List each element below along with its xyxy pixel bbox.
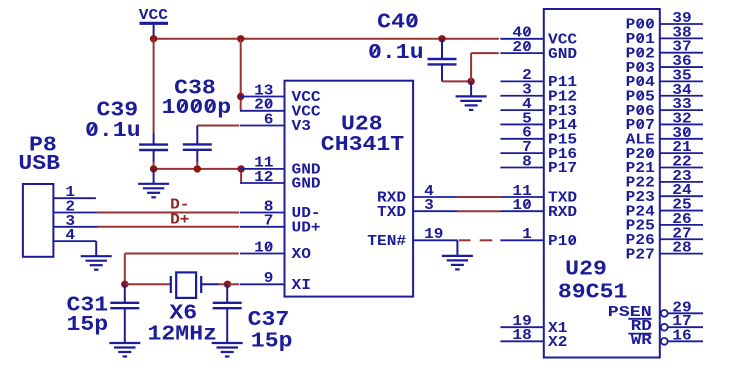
crystal X6: [171, 272, 219, 298]
U29 pin 7 (P16): [500, 139, 577, 163]
svg-text:10: 10: [512, 197, 531, 214]
overline bar above RD: [628, 318, 651, 320]
svg-text:U29: U29: [565, 259, 607, 282]
svg-text:12MHz: 12MHz: [148, 323, 218, 346]
P8 pin 1: [53, 184, 96, 201]
U28 pin 19 (TEN#): [367, 226, 457, 250]
wire U28 XO to crystal column: [125, 254, 239, 285]
svg-text:GND: GND: [292, 176, 321, 193]
label U28: [341, 114, 383, 137]
U28 pin 11 (GND): [240, 155, 321, 179]
svg-text:X6: X6: [169, 303, 197, 326]
P8 pin 2: [53, 199, 97, 216]
wire D- (P8 pin2 to U28 UD-): [97, 212, 239, 214]
wire VCC rail (153.5,38.8)-(499,38.8): [154, 38, 499, 40]
U28 pin 12 (GND): [240, 169, 321, 193]
svg-text:0.1u: 0.1u: [85, 120, 141, 143]
U29 pin 17 (RD): [631, 313, 703, 335]
ic U28 body: [285, 81, 414, 297]
svg-text:P27: P27: [626, 246, 655, 263]
label C39: [97, 99, 139, 122]
U29 pin 29 (PSEN): [608, 299, 703, 321]
svg-text:TEN#: TEN#: [367, 233, 406, 250]
svg-text:RXD: RXD: [548, 204, 577, 221]
U29 pin 1 (P10): [500, 226, 577, 250]
svg-text:USB: USB: [18, 153, 60, 176]
U29 pin 21 (P20): [626, 139, 703, 163]
U29 pin 18 (X2): [500, 327, 567, 351]
U29 pin 4 (P13): [500, 96, 577, 120]
svg-text:18: 18: [512, 327, 531, 344]
label USB: [18, 153, 60, 176]
U29 pin 20 (GND): [500, 39, 577, 63]
U29 pin 11 (TXD): [500, 183, 577, 207]
U29 pin 39 (P00): [626, 10, 703, 34]
U29 pin 2 (P11): [500, 67, 577, 91]
ground symbol below C39: [138, 169, 169, 197]
U28 pin 20 (VCC): [240, 97, 321, 121]
label P8: [29, 135, 57, 158]
svg-text:UD+: UD+: [292, 220, 321, 237]
label CH341T: [321, 134, 404, 157]
ic U29 body: [544, 9, 660, 358]
U29 pin 22 (P21): [626, 154, 703, 178]
wire junction to U28 XI: [228, 283, 240, 285]
capacitor C37: [213, 284, 242, 343]
U29 pin 25 (P24): [626, 197, 703, 221]
dashed wire TEN# to U29 P10: [459, 239, 492, 241]
ground symbol below C40: [456, 81, 487, 110]
U28 pin 7 (UD+): [240, 213, 321, 237]
label X6: [169, 303, 197, 326]
wire C38 lead to gnd rail: [196, 162, 198, 169]
ground symbol below C37: [212, 343, 243, 357]
ground symbol below P8 pin 4: [81, 241, 112, 270]
svg-text:16: 16: [672, 327, 691, 344]
junction C38/gnd (197.3,168.9): [194, 165, 201, 172]
wire TEN# to ground: [456, 240, 458, 256]
junction X6/C37/XI (227.5,284.3): [224, 281, 231, 288]
svg-text:XO: XO: [292, 246, 311, 263]
U28 pin 4 (RXD): [377, 183, 458, 207]
ground symbol below C31: [109, 343, 140, 357]
U29 pin 40 (VCC): [500, 25, 577, 49]
wire RXD (U28 pin4 to U29 pin11): [458, 196, 501, 198]
P8 pin 3: [53, 213, 97, 230]
svg-text:12: 12: [254, 169, 273, 186]
wire VCC down to U28 VCC pins (240.7): [240, 39, 242, 111]
junction C40/gnd/U29pin20 (471.1,81.4): [467, 78, 474, 85]
U29 pin 8 (P17): [500, 153, 577, 177]
junction at U28 pin13 (240.7,96.5): [237, 93, 244, 100]
svg-text:0.1u: 0.1u: [368, 42, 424, 65]
U29 pin 38 (P01): [626, 24, 703, 48]
wire gnd rail (153.5,168.9)-(241,168.9): [154, 168, 242, 170]
label C37: [248, 309, 290, 332]
U29 pin 36 (P03): [626, 53, 703, 77]
net label D-: [170, 197, 189, 214]
U29 pin 30 (ALE): [626, 125, 703, 149]
junction VCC to U28 pins 13/20 (240.7,38.8): [237, 35, 244, 42]
svg-text:89C51: 89C51: [558, 281, 628, 304]
svg-text:X2: X2: [548, 334, 567, 351]
power VCC symbol: [139, 7, 168, 39]
junction C39/gnd (153.5,168.9): [150, 165, 157, 172]
U29 pin 16 (WR): [631, 327, 703, 349]
svg-text:GND: GND: [548, 46, 577, 63]
U29 pin 28 (P27): [626, 240, 703, 264]
junction VCC to C40 (442,38.8): [438, 35, 445, 42]
wire C40 bottom to gnd junction: [442, 80, 471, 82]
U28 pin 3 (TXD): [377, 197, 458, 221]
svg-text:CH341T: CH341T: [321, 134, 404, 157]
wire U28 pin6 V3 to C38 top: [197, 126, 239, 145]
svg-text:9: 9: [264, 270, 274, 287]
svg-text:V3: V3: [292, 118, 311, 135]
label C40: [377, 12, 419, 35]
svg-text:C40: C40: [377, 12, 419, 35]
U29 pin 24 (P23): [626, 182, 703, 206]
svg-text:3: 3: [424, 197, 434, 214]
U28 pin 6 (V3): [240, 111, 311, 135]
svg-text:C37: C37: [248, 309, 290, 332]
label C38: [174, 77, 216, 100]
svg-text:1: 1: [522, 226, 532, 243]
svg-text:XI: XI: [292, 277, 311, 294]
label 89C51: [558, 281, 628, 304]
capacitor C40: [428, 39, 457, 82]
U29 pin 23 (P22): [626, 168, 703, 192]
U29 pin 32 (P07): [626, 110, 703, 134]
wire C39 lead to gnd rail: [153, 162, 155, 169]
capacitor C31: [110, 284, 139, 343]
U29 pin 26 (P25): [626, 211, 703, 235]
U29 pin 19 (X1): [500, 313, 567, 337]
value 12MHz: [148, 323, 218, 346]
svg-text:1000p: 1000p: [162, 97, 232, 120]
svg-text:15p: 15p: [67, 314, 109, 337]
capacitor C39: [139, 133, 168, 162]
value 1000p (C38): [162, 97, 232, 120]
svg-text:P10: P10: [548, 233, 577, 250]
wire TXD (U28 pin3 to U29 pin10): [458, 210, 501, 212]
svg-text:20: 20: [512, 39, 531, 56]
junction gnd rail at U28 pin11 (241.1,168.9): [237, 165, 244, 172]
U29 pin 27 (P26): [626, 225, 703, 249]
U29 pin 3 (P12): [500, 82, 577, 106]
U28 pin 13 (VCC): [240, 82, 321, 106]
wire gnd junction up to U29 pin20 GND: [471, 53, 499, 81]
U28 pin 8 (UD-): [240, 198, 321, 222]
label C31: [67, 295, 109, 318]
label U29: [565, 259, 607, 282]
wire D+ (P8 pin3 to U28 UD+): [97, 226, 239, 228]
svg-text:7: 7: [264, 213, 274, 230]
wire VCC down to C39 (153.5): [153, 39, 155, 133]
overline bar above WR: [628, 333, 651, 335]
U29 pin 37 (P02): [626, 39, 703, 63]
wire crystal right lead to junction: [219, 283, 227, 285]
U29 pin 35 (P04): [626, 67, 703, 91]
value 15p (C37): [251, 330, 293, 353]
svg-text:4: 4: [65, 227, 75, 244]
U28 pin 10 (XO): [240, 239, 311, 263]
U29 pin 33 (P06): [626, 96, 703, 120]
wire crystal left lead: [125, 283, 171, 285]
svg-text:TXD: TXD: [377, 204, 406, 221]
P8 pin 4: [53, 227, 96, 244]
svg-text:C39: C39: [97, 99, 139, 122]
net label D+: [170, 212, 189, 229]
svg-text:VCC: VCC: [139, 7, 168, 24]
U29 pin 6 (P15): [500, 125, 577, 149]
svg-text:6: 6: [264, 111, 274, 128]
svg-text:8: 8: [522, 153, 532, 170]
U28 pin 9 (XI): [240, 270, 311, 294]
junction at VCC drop (153.5,38.8): [150, 35, 157, 42]
svg-text:D+: D+: [170, 212, 189, 229]
value 0.1u (C39): [85, 120, 141, 143]
svg-text:10: 10: [254, 239, 273, 256]
U29 pin 10 (RXD): [500, 197, 577, 221]
ground symbol below TEN#: [442, 256, 473, 270]
value 15p (C31): [67, 314, 109, 337]
connector P8 body: [23, 184, 54, 257]
wire gnd rail down to U28 pin12: [240, 169, 242, 183]
junction XO/C31/X6 (124.8,284.3): [121, 281, 128, 288]
svg-text:19: 19: [424, 226, 443, 243]
U29 pin 5 (P14): [500, 110, 577, 134]
svg-text:P17: P17: [548, 160, 577, 177]
U29 pin 34 (P05): [626, 82, 703, 106]
value 0.1u (C40): [368, 42, 424, 65]
svg-text:15p: 15p: [251, 330, 293, 353]
svg-text:28: 28: [672, 240, 691, 257]
capacitor C38: [183, 144, 212, 162]
